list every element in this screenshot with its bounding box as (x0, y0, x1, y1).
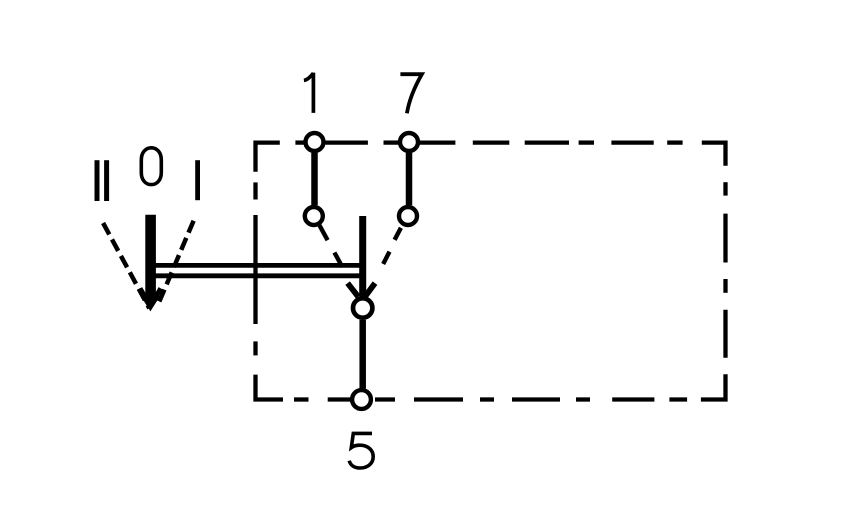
actuator bar (double line) (146, 265, 363, 275)
common contact left arm (348, 283, 359, 297)
label: position 0 (141, 148, 161, 185)
contact 1 lower circle (305, 207, 323, 225)
dashed guide, position II to arrow tip (103, 223, 149, 308)
common contact circle (353, 298, 372, 317)
actuator arrow shaft (145, 215, 156, 299)
wire: terminal 1 stem (311, 153, 318, 205)
wire: left border solid segment crossing actuator bar (253, 215, 257, 324)
contact 7 lower circle (399, 207, 417, 225)
terminal 7 pin label (400, 74, 422, 113)
terminal 5 pin label (349, 433, 373, 468)
wire: common pole upper (359, 216, 366, 297)
terminal 1 contact circle (on border) (306, 133, 324, 151)
label: position II (97, 160, 107, 201)
dashed guide, position I to arrow tip (159, 221, 194, 304)
actuator arrow head (140, 288, 161, 311)
enclosure dash-dot border, bottom side (256, 375, 688, 400)
dashed link, contact 1 to common contact (319, 225, 342, 267)
label: position I (195, 160, 200, 200)
wire: common pole lower to terminal 5 (359, 320, 366, 389)
enclosure dash-dot border, top side (256, 143, 726, 172)
common contact right arm (365, 283, 375, 297)
terminal 7 contact circle (on border) (400, 133, 418, 151)
enclosure dash-dot border, right side (701, 182, 726, 399)
dashed link, contact 7 to common contact (383, 228, 401, 264)
wire: terminal 7 stem (406, 153, 413, 205)
enclosure dash-dot border, left side (253, 182, 257, 355)
terminal 5 contact circle (on border) (352, 390, 371, 409)
terminal 1 pin label (304, 73, 314, 113)
